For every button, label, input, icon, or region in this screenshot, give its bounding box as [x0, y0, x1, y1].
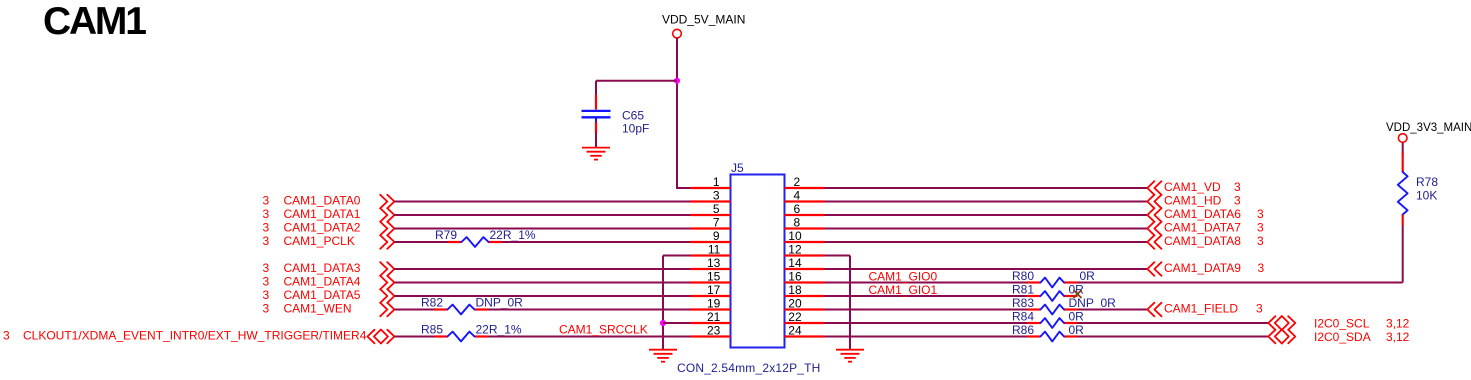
svg-text:19: 19 — [707, 296, 721, 310]
svg-text:14: 14 — [788, 256, 802, 270]
wire C65 to ground — [595, 133, 597, 148]
J5 pin 11 stub — [691, 242, 731, 256]
off-page connector CAM1_DATA8 — [1147, 235, 1161, 249]
svg-text:22R_1%: 22R_1% — [490, 228, 536, 242]
svg-text:10: 10 — [788, 229, 802, 243]
svg-text:2: 2 — [794, 175, 801, 189]
net label CAM1_DATA0 — [263, 194, 361, 208]
J5 pin 9 stub — [691, 229, 731, 243]
J5 pin 6 stub — [785, 202, 825, 216]
svg-text:3: 3 — [1234, 180, 1241, 194]
resistor R81 — [1027, 291, 1078, 301]
wire CAM1_PCLK to R79 — [394, 241, 448, 243]
net label CAM1_DATA8 — [1164, 234, 1264, 248]
ground J5 right — [836, 350, 864, 362]
svg-text:3: 3 — [263, 261, 270, 275]
wire CAM1_DATA1 to J5 — [394, 214, 690, 216]
power symbol VDD_3V3_MAIN — [1386, 122, 1471, 142]
svg-text:10pF: 10pF — [622, 121, 649, 135]
off-page connector I2C0_SDA — [1268, 330, 1295, 344]
svg-text:16: 16 — [788, 269, 802, 283]
svg-text:3: 3 — [1256, 302, 1263, 316]
net label CLKOUT1/XDMA_EVENT_INTR0/EXT_HW_TRIGGER/TIMER4 — [3, 329, 367, 343]
off-page connector CAM1_DATA7 — [1147, 222, 1161, 236]
svg-text:3: 3 — [263, 194, 270, 208]
svg-text:3: 3 — [3, 329, 10, 343]
wire J5 to R80 — [825, 282, 1028, 284]
svg-text:CAM1_DATA4: CAM1_DATA4 — [284, 275, 361, 289]
svg-text:DNP_0R: DNP_0R — [476, 296, 524, 310]
svg-text:0R: 0R — [1069, 323, 1085, 337]
svg-text:0R: 0R — [1080, 269, 1096, 283]
off-page connector CAM1_HD — [1147, 195, 1161, 209]
J5 pin 17 stub — [691, 283, 731, 297]
svg-text:CLKOUT1/XDMA_EVENT_INTR0/EXT_H: CLKOUT1/XDMA_EVENT_INTR0/EXT_HW_TRIGGER/… — [23, 329, 367, 343]
wire J5 to CAM1_DATA8 — [825, 241, 1148, 243]
J5 pin 16 stub — [785, 269, 825, 283]
svg-text:CAM1_WEN: CAM1_WEN — [284, 302, 352, 316]
J5 pin 12 stub — [785, 242, 825, 256]
svg-text:3,12: 3,12 — [1386, 330, 1410, 344]
label R78 — [1416, 175, 1438, 203]
net label CAM1_DATA7 — [1164, 221, 1264, 235]
wire VDD_3V3_MAIN to R78 — [1402, 143, 1404, 154]
junction pin 21 ground — [660, 320, 666, 326]
svg-text:3: 3 — [1258, 261, 1265, 275]
wire J5 to CAM1_HD — [825, 201, 1148, 203]
ground C65 — [582, 148, 610, 160]
net label I2C0_SCL — [1314, 316, 1410, 330]
svg-text:18: 18 — [788, 283, 802, 297]
svg-text:13: 13 — [707, 256, 721, 270]
svg-text:I2C0_SCL: I2C0_SCL — [1314, 316, 1370, 330]
svg-text:DNP_0R: DNP_0R — [1069, 296, 1117, 310]
J5 pin 15 stub — [691, 269, 731, 283]
svg-text:23: 23 — [707, 323, 721, 337]
svg-text:R78: R78 — [1416, 175, 1438, 189]
resistor R79 — [448, 237, 502, 247]
resistor R84 — [1027, 318, 1078, 328]
svg-text:CAM1_FIELD: CAM1_FIELD — [1164, 302, 1238, 316]
svg-text:R82: R82 — [421, 296, 443, 310]
net label CAM1_DATA4 — [263, 275, 361, 289]
wire CAM1_DATA0 to J5 — [394, 201, 690, 203]
junction VDD_5V_MAIN branch — [674, 78, 680, 84]
resistor R85 — [434, 332, 488, 342]
wire J5 to R84 — [825, 322, 1028, 324]
label R81 — [1012, 282, 1084, 296]
svg-text:3: 3 — [263, 288, 270, 302]
wire J5 to CAM1_DATA6 — [825, 214, 1148, 216]
svg-text:R81: R81 — [1012, 282, 1034, 296]
off-page connector CAM1_PCLK — [380, 235, 394, 249]
resistor R86 — [1027, 332, 1078, 342]
svg-text:12: 12 — [788, 242, 802, 256]
wire R85 to J5 pin 23 net CAM1_SRCCLK — [488, 336, 691, 338]
label R86 — [1012, 323, 1084, 337]
J5 pin 23 stub — [691, 323, 731, 337]
wire J5 pin 11 to ground — [663, 256, 691, 350]
svg-text:VDD_3V3_MAIN: VDD_3V3_MAIN — [1386, 122, 1471, 134]
J5 pin 4 stub — [785, 188, 825, 202]
net label CAM1_HD — [1164, 194, 1241, 208]
J5 pin 20 stub — [785, 296, 825, 310]
svg-text:0R: 0R — [1069, 309, 1085, 323]
connector J5 body — [731, 175, 785, 348]
svg-text:CAM1: CAM1 — [43, 0, 146, 43]
off-page connector CAM1_DATA1 — [380, 208, 394, 222]
wire VDD branch to C65 — [596, 81, 677, 96]
svg-text:CAM1_DATA2: CAM1_DATA2 — [284, 221, 361, 235]
wire J5 to R83 — [825, 309, 1028, 311]
wire J5 pin 21 to ground net — [663, 322, 691, 324]
svg-text:I2C0_SDA: I2C0_SDA — [1314, 330, 1371, 344]
svg-text:10K: 10K — [1416, 189, 1437, 203]
net label CAM1_FIELD — [1164, 302, 1263, 316]
J5 pin 2 stub — [785, 175, 825, 189]
svg-text:CAM1_PCLK: CAM1_PCLK — [284, 234, 355, 248]
J5 pin 3 stub — [691, 188, 731, 202]
svg-text:CON_2.54mm_2x12P_TH: CON_2.54mm_2x12P_TH — [677, 361, 820, 375]
svg-text:3: 3 — [713, 188, 720, 202]
resistor R83 — [1027, 305, 1078, 315]
svg-text:3: 3 — [263, 302, 270, 316]
no-connect marker R81 — [1074, 290, 1082, 298]
J5 pin 18 stub — [785, 283, 825, 297]
svg-text:3: 3 — [1234, 194, 1241, 208]
svg-text:R80: R80 — [1012, 269, 1034, 283]
J5 pin 24 stub — [785, 323, 825, 337]
off-page connector CAM1_DATA3 — [380, 262, 394, 276]
label R84 — [1012, 309, 1084, 323]
net label I2C0_SDA — [1314, 330, 1410, 344]
net label CAM1_WEN — [263, 302, 352, 316]
svg-text:17: 17 — [707, 283, 721, 297]
svg-text:22R_1%: 22R_1% — [476, 323, 522, 337]
wire R80 to R78 pull-up — [1078, 225, 1403, 283]
net label CAM1_DATA6 — [1164, 207, 1264, 221]
off-page connector CAM1_FIELD — [1147, 303, 1161, 317]
net label CAM1_DATA3 — [263, 261, 361, 275]
svg-text:3,12: 3,12 — [1386, 316, 1410, 330]
svg-text:R79: R79 — [435, 228, 457, 242]
wire R83 to CAM1_FIELD — [1078, 309, 1148, 311]
wire J5 to CAM1_DATA9 — [825, 268, 1148, 270]
svg-text:22: 22 — [788, 310, 802, 324]
J5 pin 7 stub — [691, 215, 731, 229]
svg-text:R83: R83 — [1012, 296, 1034, 310]
J5 pin 13 stub — [691, 256, 731, 270]
svg-text:3: 3 — [263, 234, 270, 248]
svg-text:9: 9 — [713, 229, 720, 243]
off-page connector CLKOUT1/XDMA_EVENT_INTR0/EXT_HW_TRIGGER/TIMER4 — [367, 330, 394, 344]
label R83 — [1012, 296, 1116, 310]
wire CAM1_DATA5 to J5 — [394, 295, 690, 297]
wire VDD_5V_MAIN vertical to pin 1 — [677, 38, 691, 189]
wire CAM1_DATA3 to J5 — [394, 268, 690, 270]
wire J5 to R86 — [825, 336, 1028, 338]
ground J5 left — [649, 350, 677, 362]
svg-text:R86: R86 — [1012, 323, 1034, 337]
svg-text:CAM1_GIO1: CAM1_GIO1 — [869, 283, 938, 297]
svg-text:21: 21 — [707, 310, 721, 324]
J5 pin 10 stub — [785, 229, 825, 243]
wire CAM1_DATA2 to J5 — [394, 228, 690, 230]
svg-text:8: 8 — [794, 215, 801, 229]
svg-text:CAM1_DATA0: CAM1_DATA0 — [284, 194, 361, 208]
resistor R78 — [1398, 153, 1408, 226]
wire J5 to CAM1_DATA7 — [825, 228, 1148, 230]
svg-text:J5: J5 — [731, 161, 744, 175]
off-page connector CAM1_DATA4 — [380, 276, 394, 290]
net label CAM1_DATA5 — [263, 288, 361, 302]
svg-text:20: 20 — [788, 296, 802, 310]
svg-text:11: 11 — [708, 242, 721, 256]
wire CLKOUT1 to R85 — [394, 336, 434, 338]
J5 pin 8 stub — [785, 215, 825, 229]
label R79 — [435, 228, 536, 242]
svg-text:CAM1_DATA3: CAM1_DATA3 — [284, 261, 361, 275]
wire R86 to I2C0_SDA — [1078, 336, 1269, 338]
wire J5 to CAM1_VD — [825, 187, 1148, 189]
svg-text:CAM1_DATA7: CAM1_DATA7 — [1164, 221, 1241, 235]
net label CAM1_DATA2 — [263, 221, 361, 235]
J5 pin 19 stub — [691, 296, 731, 310]
label R85 — [421, 323, 522, 337]
svg-text:15: 15 — [707, 269, 721, 283]
J5 pin 14 stub — [785, 256, 825, 270]
svg-text:5: 5 — [713, 202, 720, 216]
svg-text:CAM1_VD: CAM1_VD — [1164, 180, 1221, 194]
off-page connector CAM1_WEN — [380, 303, 394, 317]
off-page connector CAM1_DATA0 — [380, 195, 394, 209]
svg-text:1: 1 — [713, 175, 720, 189]
svg-text:4: 4 — [794, 188, 801, 202]
off-page connector CAM1_DATA2 — [380, 222, 394, 236]
svg-text:3: 3 — [1257, 207, 1264, 221]
net label CAM1_DATA9 — [1164, 261, 1265, 275]
power symbol VDD_5V_MAIN — [662, 13, 745, 38]
svg-text:3: 3 — [1257, 221, 1264, 235]
J5 pin 1 stub — [691, 175, 731, 189]
svg-text:CAM1_DATA1: CAM1_DATA1 — [284, 207, 361, 221]
svg-text:3: 3 — [1257, 234, 1264, 248]
svg-text:CAM1_DATA9: CAM1_DATA9 — [1164, 261, 1241, 275]
wire R82 to J5 pin 19 — [488, 309, 691, 311]
svg-text:R85: R85 — [421, 323, 443, 337]
wire R79 to J5 pin 9 — [502, 241, 691, 243]
resistor R82 — [434, 305, 488, 315]
svg-text:CAM1_DATA6: CAM1_DATA6 — [1164, 207, 1241, 221]
wire CAM1_WEN to R82 — [394, 309, 434, 311]
label R82 — [421, 296, 523, 310]
resistor R80 — [1027, 278, 1078, 288]
net label CAM1_DATA1 — [263, 207, 361, 221]
svg-text:VDD_5V_MAIN: VDD_5V_MAIN — [662, 13, 745, 27]
svg-text:6: 6 — [794, 202, 801, 216]
label C65 value — [622, 108, 649, 135]
J5 pin 5 stub — [691, 202, 731, 216]
wire CAM1_DATA4 to J5 — [394, 282, 690, 284]
J5 pin 22 stub — [785, 310, 825, 324]
svg-text:R84: R84 — [1012, 309, 1034, 323]
svg-text:24: 24 — [788, 323, 802, 337]
net label CAM1_VD — [1164, 180, 1241, 194]
svg-text:3: 3 — [263, 221, 270, 235]
wire R84 to I2C0_SCL — [1078, 322, 1269, 324]
svg-text:CAM1_DATA8: CAM1_DATA8 — [1164, 234, 1241, 248]
label R80 — [1012, 269, 1095, 283]
svg-text:C65: C65 — [622, 108, 644, 122]
off-page connector CAM1_DATA6 — [1147, 208, 1161, 222]
svg-text:7: 7 — [713, 215, 720, 229]
svg-text:CAM1_GIO0: CAM1_GIO0 — [869, 270, 938, 284]
off-page connector CAM1_VD — [1147, 181, 1161, 195]
wire J5 pin 12 to ground — [825, 256, 851, 350]
J5 pin 21 stub — [691, 310, 731, 324]
off-page connector CAM1_DATA5 — [380, 289, 394, 303]
off-page connector I2C0_SCL — [1268, 316, 1295, 330]
wire J5 to R81 — [825, 295, 1028, 297]
svg-text:CAM1_HD: CAM1_HD — [1164, 194, 1222, 208]
svg-text:3: 3 — [263, 275, 270, 289]
off-page connector CAM1_DATA9 — [1147, 262, 1161, 276]
capacitor C65 — [582, 95, 611, 133]
svg-text:CAM1_DATA5: CAM1_DATA5 — [284, 288, 361, 302]
net label CAM1_PCLK — [263, 234, 355, 248]
svg-text:3: 3 — [263, 207, 270, 221]
svg-text:CAM1_SRCCLK: CAM1_SRCCLK — [559, 323, 648, 337]
